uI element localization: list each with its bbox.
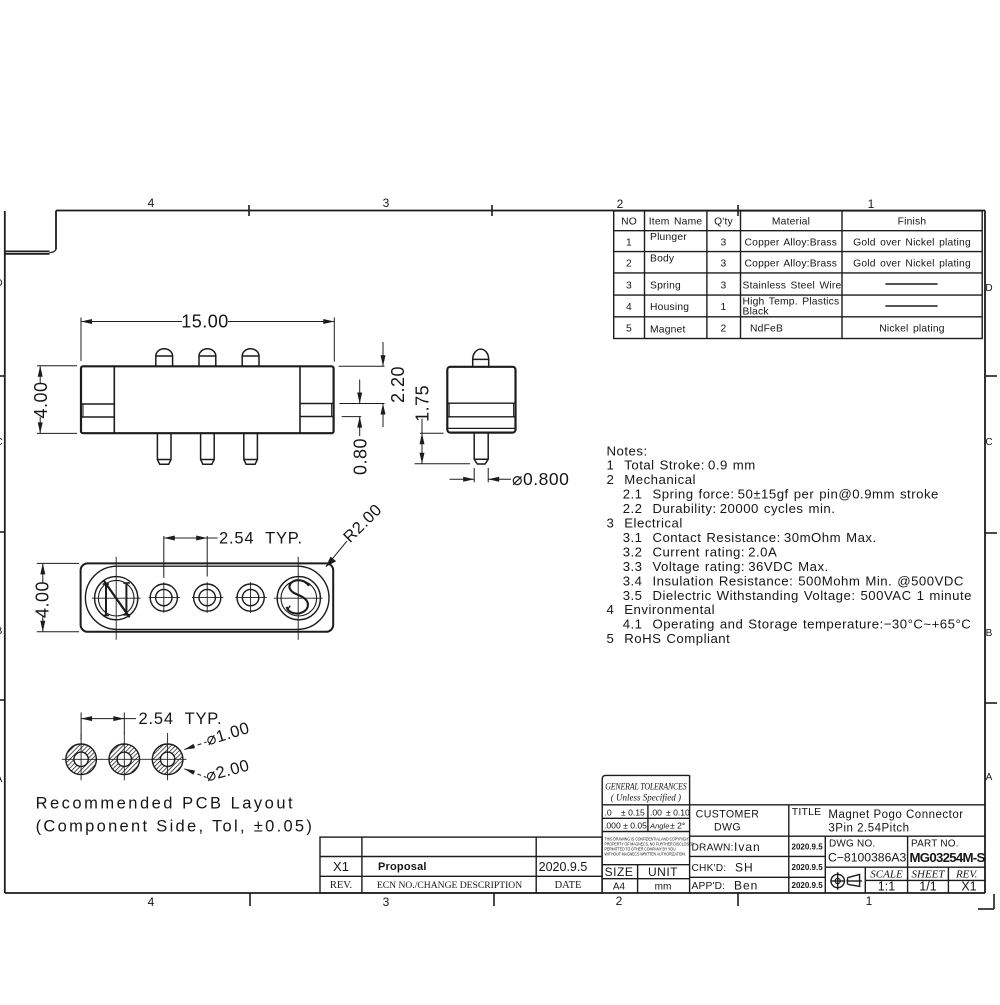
pad 3 (152, 744, 183, 775)
svg-text:B: B (986, 628, 993, 639)
svg-text:SH: SH (735, 861, 754, 875)
DIM 4.00 top view (37, 563, 79, 631)
svg-text:Item Name: Item Name (649, 217, 703, 228)
DIM 0.80 (342, 380, 362, 437)
svg-text:Gold over Nickel plating: Gold over Nickel plating (853, 238, 971, 249)
svg-text:3: 3 (721, 238, 727, 249)
left PCB slot (81, 403, 114, 405)
leader dia 1.00 (184, 742, 206, 750)
magnet S centerlines (297, 557, 299, 640)
inner stadium (85, 566, 329, 629)
magnet N circles (95, 577, 138, 620)
svg-text:.0: .0 (605, 808, 612, 818)
DIM 1.75 (415, 419, 471, 464)
svg-text:2020.9.5: 2020.9.5 (792, 843, 824, 852)
lower chamfer line (447, 427, 515, 429)
svg-text:± 2°: ± 2° (670, 820, 685, 830)
svg-text:Material: Material (772, 217, 810, 228)
svg-text:Magnet Pogo Connector: Magnet Pogo Connector (828, 809, 963, 821)
housing outline (81, 563, 334, 631)
svg-text:Body: Body (650, 254, 675, 265)
top-left notch vertical (55, 211, 57, 250)
svg-text:3 Electrical: 3 Electrical (607, 516, 683, 531)
svg-text:2.2 Durability: 20000 cycles: 2.2 Durability: 20000 cycles min. (623, 501, 836, 516)
svg-text:DATE: DATE (555, 880, 582, 891)
svg-text:DWG NO.: DWG NO. (829, 839, 875, 850)
GT box texts (605, 781, 687, 803)
svg-text:Housing: Housing (650, 302, 689, 313)
svg-text:3Pin 2.54Pitch: 3Pin 2.54Pitch (828, 823, 909, 835)
svg-text:⌀0.800: ⌀0.800 (512, 469, 569, 489)
svg-text:NO: NO (621, 217, 637, 228)
svg-text:TITLE: TITLE (792, 806, 822, 818)
svg-text:( Unless Specified ): ( Unless Specified ) (611, 793, 681, 803)
top border (56, 210, 985, 212)
svg-text:5 RoHS Compliant: 5 RoHS Compliant (607, 631, 731, 646)
DIM 2.54 TYP pcb (81, 713, 136, 741)
svg-text:Q'ty: Q'ty (714, 217, 733, 228)
svg-text:2.54 TYP.: 2.54 TYP. (219, 530, 303, 548)
dates (792, 843, 824, 891)
SHEET FRAME (5, 211, 985, 894)
left border (4, 211, 6, 893)
pad 1 (66, 744, 97, 775)
pad centerlines (62, 733, 187, 780)
solder tail 2 (201, 433, 215, 464)
solder tail 3 (244, 433, 258, 464)
svg-text:D: D (0, 278, 3, 289)
NOTES (607, 443, 972, 646)
body (447, 367, 515, 433)
svg-text:C−8100386A3: C−8100386A3 (828, 851, 906, 865)
pad 2 (109, 744, 140, 775)
svg-text:3.3 Voltage rating: 36VDC Max: 3.3 Voltage rating: 36VDC Max. (623, 559, 829, 574)
right border (984, 211, 986, 894)
svg-text:1:1: 1:1 (878, 880, 895, 894)
svg-text:Black: Black (743, 307, 770, 318)
svg-text:X1: X1 (333, 859, 349, 874)
DIM R2.00 leader (326, 541, 347, 567)
svg-text:SIZE: SIZE (605, 865, 634, 879)
magnet S circles (277, 577, 320, 620)
DIM 2.20 (339, 342, 385, 427)
zone numbers and letters (0, 196, 993, 909)
GT box internals (602, 804, 689, 806)
svg-text:3: 3 (383, 895, 390, 909)
svg-text:1 Total Stroke: 0.9 mm: 1 Total Stroke: 0.9 mm (607, 458, 756, 473)
scale sheet rev (870, 869, 977, 881)
svg-text:3: 3 (721, 281, 727, 292)
svg-text:Recommended PCB Layout: Recommended PCB Layout (36, 795, 296, 813)
SIDE VIEW (447, 349, 515, 464)
bottom pin (474, 433, 488, 464)
svg-text:2.20: 2.20 (388, 366, 408, 403)
svg-text:Plunger: Plunger (650, 232, 687, 243)
svg-text:Gold over Nickel plating: Gold over Nickel plating (853, 259, 971, 270)
bottom border (5, 892, 985, 894)
letter S stroke (287, 580, 309, 613)
magnet N centerlines (115, 557, 117, 640)
svg-text:3: 3 (383, 196, 390, 210)
svg-text:2020.9.5: 2020.9.5 (539, 860, 588, 874)
REVISION TABLE (320, 837, 602, 893)
svg-text:C: C (985, 437, 992, 448)
dash marks in finish col (885, 283, 937, 285)
svg-text:Angle: Angle (649, 821, 669, 830)
svg-text:DWG: DWG (714, 822, 741, 834)
svg-text:1: 1 (868, 197, 875, 211)
svg-text:WITHOUT MAGNECS WRITTEN AUTHOR: WITHOUT MAGNECS WRITTEN AUTHORIZATION. (604, 851, 685, 856)
TOP VIEW (81, 557, 334, 640)
plunger pin 1 top (156, 349, 173, 367)
solder tail 1 (157, 433, 171, 464)
svg-text:3: 3 (626, 281, 632, 292)
slot lines (447, 402, 515, 404)
svg-text:1: 1 (721, 302, 727, 313)
svg-text:PART NO.: PART NO. (911, 839, 959, 850)
DIM 2.54 TYP top view (164, 536, 218, 578)
svg-text:A4: A4 (613, 882, 626, 893)
svg-text:GENERAL TOLERANCES: GENERAL TOLERANCES (605, 781, 687, 792)
right cells (825, 866, 985, 868)
left flange inner edge (113, 366, 115, 433)
svg-text:± 0.10: ± 0.10 (666, 808, 690, 818)
svg-text:4.00: 4.00 (33, 581, 53, 618)
svg-text:1/1: 1/1 (919, 880, 936, 894)
svg-text:Magnet: Magnet (650, 325, 686, 336)
outer edges (602, 775, 689, 893)
TITLE BLOCK (602, 775, 985, 893)
svg-text:4.1 Operating and Storage tem: 4.1 Operating and Storage temperature:−3… (623, 617, 972, 632)
svg-text:ECN NO./CHANGE DESCRIPTION: ECN NO./CHANGE DESCRIPTION (377, 880, 522, 891)
svg-text:Proposal: Proposal (378, 861, 427, 873)
svg-text:APP'D:: APP'D: (692, 881, 726, 892)
svg-text:4: 4 (626, 302, 632, 313)
svg-text:NdFeB: NdFeB (750, 324, 783, 335)
svg-text:3.1 Contact Resistance: 30mOh: 3.1 Contact Resistance: 30mOhm Max. (623, 530, 877, 545)
svg-text:mm: mm (655, 882, 672, 893)
svg-text:CUSTOMER: CUSTOMER (696, 809, 760, 821)
plunger pin 2 top (199, 349, 216, 367)
svg-text:Ben: Ben (734, 879, 758, 893)
svg-text:B: B (0, 626, 3, 637)
svg-text:2: 2 (626, 259, 632, 270)
svg-text:± 0.15: ± 0.15 (621, 808, 645, 818)
svg-text:A: A (0, 774, 3, 785)
svg-text:1: 1 (626, 238, 632, 249)
svg-text:CHK'D:: CHK'D: (692, 863, 727, 874)
BOM TABLE (614, 211, 983, 339)
letter N strokes (105, 584, 107, 616)
plunger pin 3 top (242, 349, 259, 367)
svg-text:UNIT: UNIT (648, 865, 678, 879)
name/date rows (690, 835, 985, 837)
svg-text:X1: X1 (961, 880, 976, 894)
svg-text:REV.: REV. (330, 880, 352, 891)
plunger top (473, 349, 489, 367)
svg-text:3.5 Dielectric Withstanding V: 3.5 Dielectric Withstanding Voltage: 500… (623, 588, 972, 603)
svg-text:1.75: 1.75 (413, 385, 433, 422)
FRONT VIEW (81, 349, 334, 465)
svg-text:Copper Alloy:Brass: Copper Alloy:Brass (745, 259, 838, 270)
svg-text:2: 2 (616, 894, 623, 908)
DIM 4.00 front (37, 366, 77, 434)
svg-text:4.00: 4.00 (31, 381, 51, 418)
pogo pin hole 1 (150, 584, 177, 611)
svg-text:3.4 Insulation Resistance: 5: 3.4 Insulation Resistance: 500Mohm Min. … (623, 573, 964, 588)
projection symbol (830, 872, 862, 889)
notch connector (50, 250, 57, 253)
svg-text:C: C (0, 437, 3, 448)
svg-text:D: D (985, 283, 992, 294)
svg-text:Copper Alloy:Brass: Copper Alloy:Brass (745, 238, 838, 249)
right flange inner edge (299, 366, 301, 433)
svg-text:0.80: 0.80 (351, 438, 371, 475)
svg-text:2020.9.5: 2020.9.5 (792, 881, 824, 890)
leader dia 2.00 (184, 769, 206, 778)
svg-text:Nickel plating: Nickel plating (879, 324, 945, 335)
svg-text:3: 3 (721, 259, 727, 270)
svg-text:2: 2 (721, 324, 727, 335)
svg-text:MG03254M-S: MG03254M-S (910, 850, 986, 865)
svg-text:(Component Side, Tol, ±0.05): (Component Side, Tol, ±0.05) (36, 817, 315, 835)
right PCB slot (300, 403, 334, 405)
svg-text:15.00: 15.00 (181, 312, 229, 332)
svg-text:2.1 Spring force: 50±15gf per: 2.1 Spring force: 50±15gf per pin@0.9mm … (623, 487, 939, 502)
svg-text:5: 5 (626, 324, 632, 335)
svg-text:.00: .00 (650, 808, 662, 818)
svg-text:2.54 TYP.: 2.54 TYP. (139, 710, 223, 728)
housing body outline (81, 366, 334, 433)
top-left notch double line (5, 250, 50, 252)
bottom right corner trim mark (993, 894, 995, 909)
svg-text:Finish: Finish (898, 217, 927, 228)
zone ticks (0, 205, 997, 909)
svg-text:Notes:: Notes: (607, 443, 648, 458)
svg-text:2020.9.5: 2020.9.5 (792, 863, 824, 872)
DIM dia 0.800 (450, 468, 512, 482)
svg-text:Stainless Steel Wire: Stainless Steel Wire (743, 281, 842, 292)
svg-text:.000 ± 0.05: .000 ± 0.05 (604, 820, 647, 830)
svg-text:2 Mechanical: 2 Mechanical (607, 472, 696, 487)
svg-text:Ivan: Ivan (734, 840, 761, 854)
svg-text:4 Environmental: 4 Environmental (607, 602, 716, 617)
svg-text:2: 2 (617, 197, 624, 211)
pogo pin hole 2 (194, 584, 221, 611)
svg-text:3.2 Current rating: 2.0A: 3.2 Current rating: 2.0A (623, 544, 778, 559)
svg-text:4: 4 (148, 196, 155, 210)
DIM 15.00 (81, 318, 334, 362)
svg-text:1: 1 (866, 894, 873, 908)
pogo pin hole 3 (237, 584, 264, 611)
svg-text:DRAWN:: DRAWN: (692, 843, 734, 854)
svg-text:A: A (986, 772, 993, 783)
confidential fine print (604, 836, 693, 856)
svg-text:4: 4 (148, 895, 155, 909)
svg-text:Spring: Spring (650, 281, 681, 292)
